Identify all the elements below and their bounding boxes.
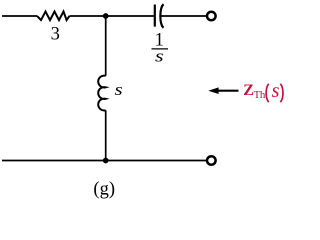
svg-text:ZThs: ZThs bbox=[243, 80, 279, 102]
wire bottom node to terminal bbox=[106, 160, 206, 162]
label Z_Th(s) left paren bbox=[266, 84, 269, 102]
node junction dot bottom bbox=[103, 158, 109, 164]
terminal bottom-right open circle bbox=[207, 156, 216, 165]
wire node to capacitor bbox=[106, 15, 155, 17]
svg-text:s: s bbox=[155, 47, 164, 66]
wire bottom-left lead bbox=[2, 160, 106, 162]
svg-text:(g): (g) bbox=[93, 179, 115, 199]
capacitor 1/s left plate bbox=[154, 5, 156, 27]
wire node down to inductor bbox=[105, 16, 107, 76]
node junction dot top bbox=[103, 13, 109, 19]
svg-text:s: s bbox=[115, 81, 123, 100]
label 1/s fraction bar bbox=[152, 48, 169, 50]
wire capacitor to top terminal bbox=[161, 15, 206, 17]
label Z_Th(s) right paren bbox=[280, 84, 283, 102]
wire resistor to node bbox=[70, 15, 106, 17]
terminal top-right open circle bbox=[207, 12, 216, 21]
svg-text:3: 3 bbox=[51, 24, 60, 44]
wire top-left lead bbox=[2, 15, 37, 17]
arrow pointing left (Z_Th indicator) bbox=[218, 90, 239, 92]
wire inductor to bottom node bbox=[105, 110, 107, 160]
inductor s coil bbox=[98, 76, 105, 111]
capacitor 1/s right curved plate bbox=[160, 4, 163, 28]
resistor 3 bbox=[37, 12, 70, 21]
